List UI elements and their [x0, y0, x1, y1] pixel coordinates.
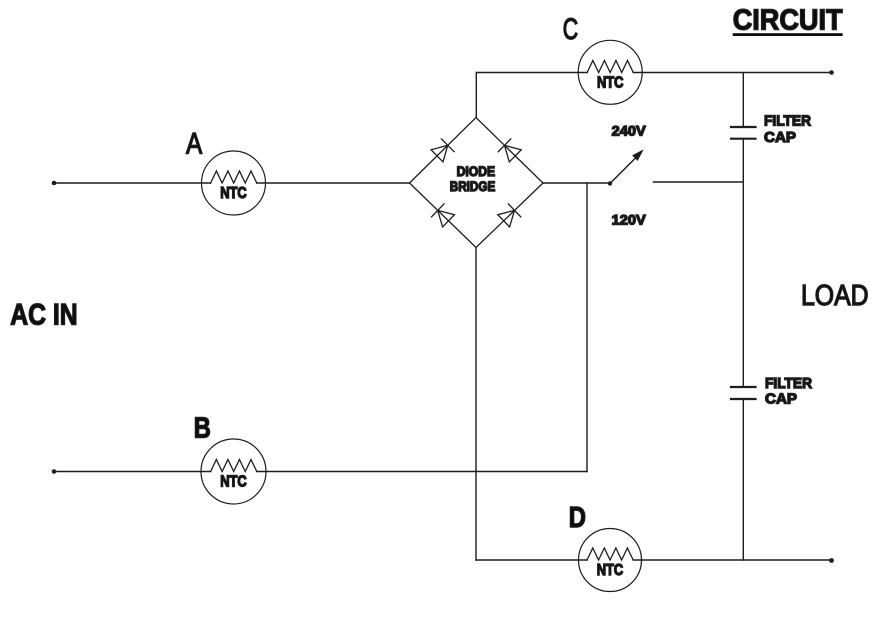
- thermistor B (NTC): [194, 413, 266, 504]
- svg-text:C: C: [563, 13, 578, 46]
- svg-text:240V: 240V: [612, 123, 647, 138]
- svg-text:AC IN: AC IN: [10, 299, 77, 332]
- wire: rail from filter cap 2 down to bottom rail: [742, 400, 744, 560]
- node DC output terminal + (dot): [829, 70, 834, 75]
- svg-text:LOAD: LOAD: [801, 280, 869, 312]
- wire: riser from B wire up to bridge-right/switch wire: [586, 183, 588, 472]
- diode D4 (bottom vertex to right vertex): [498, 204, 521, 227]
- diode bridge: [410, 118, 544, 248]
- wire: positive top rail through NTC C to output terminal: [476, 72, 587, 74]
- switch SW1 voltage selector blade with arrowhead: [611, 151, 642, 183]
- thermistor C (NTC): [563, 13, 643, 105]
- svg-text:DIODE: DIODE: [457, 164, 496, 179]
- thermistor D (NTC): [569, 502, 642, 592]
- thermistor A (NTC): [186, 127, 266, 215]
- svg-text:BRIDGE: BRIDGE: [450, 179, 496, 194]
- node AC input terminal 2 (dot): [52, 469, 57, 474]
- svg-text:A: A: [186, 127, 202, 160]
- wire: right rail from top wire down to filter cap 1: [742, 73, 744, 127]
- svg-text:NTC: NTC: [597, 75, 624, 92]
- svg-text:B: B: [194, 413, 211, 445]
- svg-text:CAP: CAP: [765, 391, 797, 408]
- node switch common junction (dot): [608, 181, 612, 185]
- svg-text:NTC: NTC: [597, 562, 624, 579]
- node DC output terminal - (dot): [829, 558, 834, 563]
- svg-text:FILTER: FILTER: [764, 112, 811, 129]
- bridge diamond frame: [410, 118, 544, 248]
- wire: bridge top vertex up to positive rail: [475, 73, 477, 118]
- diode D3 (bottom vertex to left vertex): [432, 204, 455, 227]
- diode D1 (lower-left to top vertex): [431, 139, 454, 162]
- svg-text:FILTER: FILTER: [765, 375, 812, 392]
- svg-text:NTC: NTC: [220, 474, 247, 491]
- wire: bridge right vertex to switch common: [543, 182, 610, 184]
- capacitor C2 (filter cap, bottom): [731, 375, 812, 408]
- diode D2 (right vertex to top vertex): [498, 139, 521, 162]
- wire: AC input A to bridge left vertex: [54, 182, 211, 184]
- svg-text:CAP: CAP: [764, 129, 796, 146]
- node AC input terminal 1 (dot): [52, 181, 57, 186]
- label CIRCUIT (title, underlined): [733, 4, 843, 36]
- wire: negative bottom rail through NTC D to output terminal: [476, 559, 587, 561]
- wire: bridge bottom vertex down to negative rail: [475, 248, 477, 561]
- svg-text:120V: 120V: [612, 212, 647, 227]
- svg-text:CIRCUIT: CIRCUIT: [733, 4, 843, 36]
- capacitor C1 (filter cap, top): [731, 112, 811, 145]
- svg-text:NTC: NTC: [220, 185, 247, 202]
- svg-text:D: D: [569, 502, 586, 534]
- wire: switch fixed contact to capacitor midpoint rail: [654, 181, 744, 183]
- wire: AC input B horizontal run: [54, 471, 211, 473]
- wire: rail between filter cap 1 and filter cap 2: [742, 140, 744, 386]
